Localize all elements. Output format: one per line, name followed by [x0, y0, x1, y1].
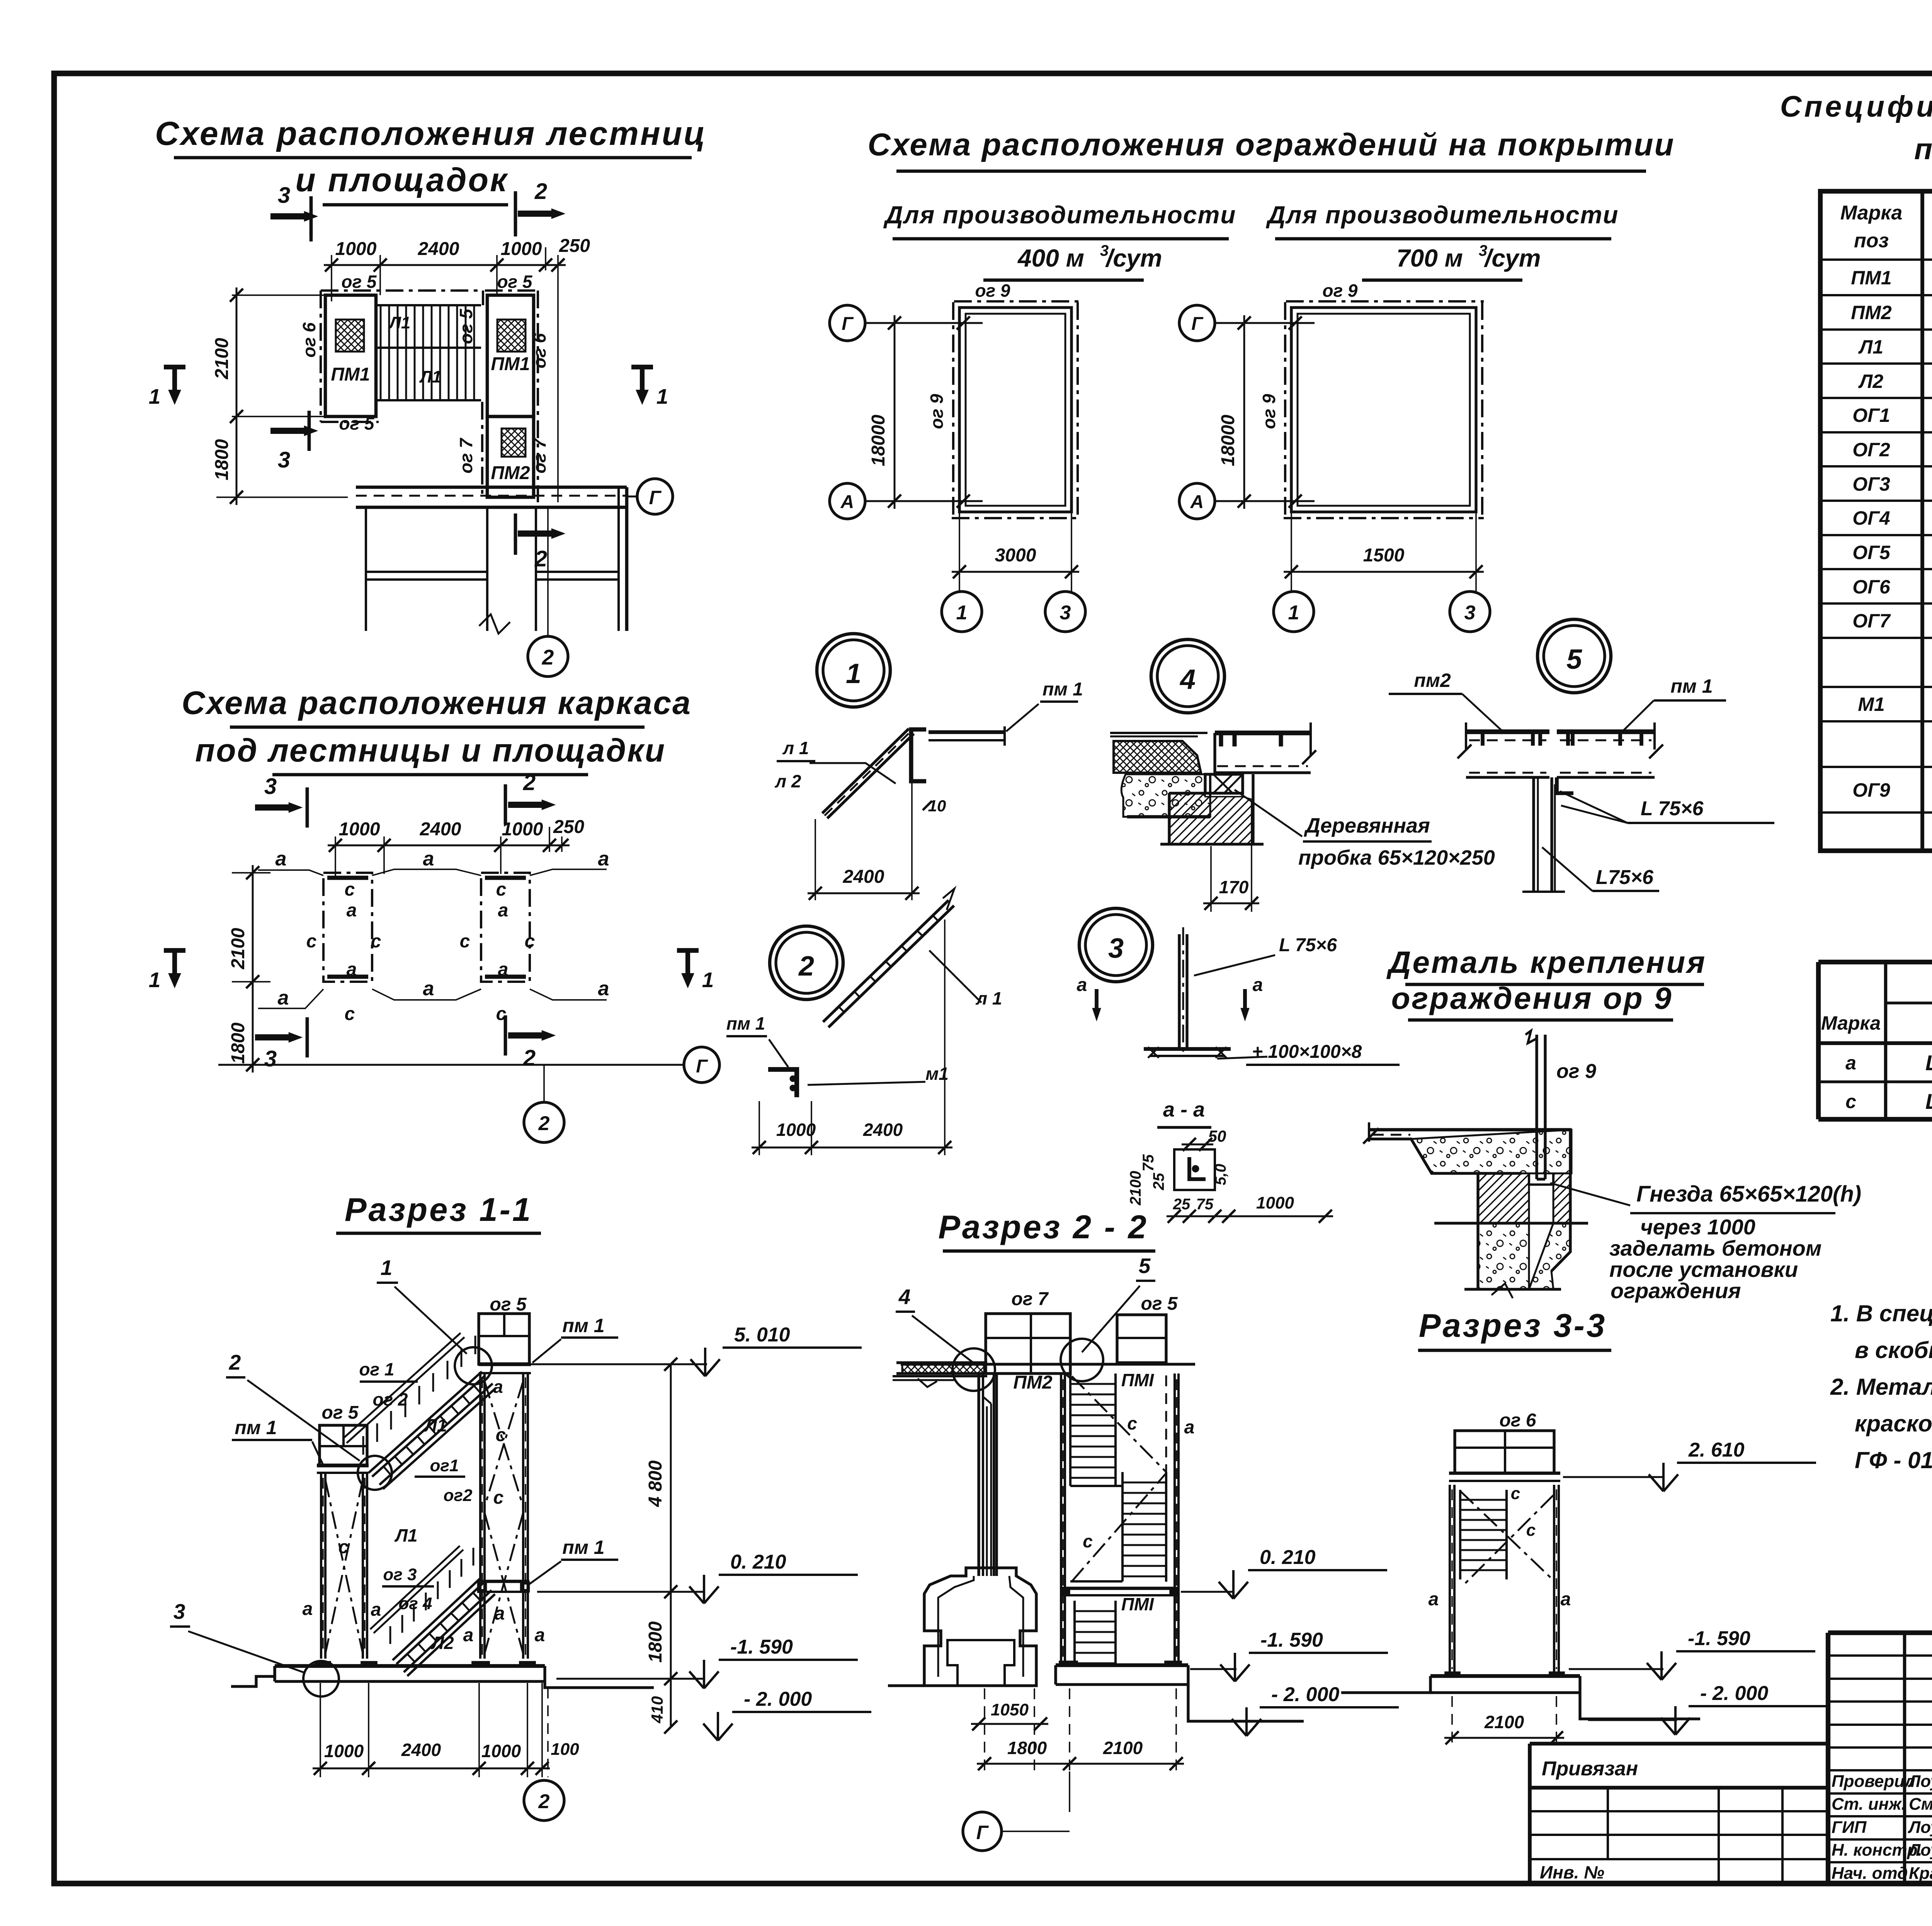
svg-text:ГФ - 0119 (ГОСТ 23343 -78): ГФ - 0119 (ГОСТ 23343 -78) или ГФ -021 (…	[1855, 1447, 1932, 1473]
svg-text:а: а	[347, 900, 357, 921]
svg-text:ОГ4: ОГ4	[1852, 507, 1890, 529]
svg-text:Для производительности: Для производительности	[883, 201, 1236, 229]
svg-text:Марка: Марка	[1821, 1012, 1881, 1034]
svg-text:с: с	[1526, 1521, 1536, 1540]
svg-text:ог 7: ог 7	[529, 437, 549, 473]
svg-text:3: 3	[264, 774, 277, 799]
svg-text:ОГ2: ОГ2	[1852, 439, 1890, 461]
svg-text:/сут: /сут	[1483, 244, 1541, 272]
svg-text:1050: 1050	[991, 1700, 1029, 1719]
svg-text:ог 5: ог 5	[1141, 1294, 1178, 1314]
svg-text:0. 210: 0. 210	[730, 1551, 786, 1573]
svg-text:2. Металлические констру: 2. Металлические конструкции окрасить ма…	[1830, 1374, 1932, 1400]
svg-text:ОГ7: ОГ7	[1852, 610, 1891, 632]
svg-text:- 2. 000: - 2. 000	[1271, 1683, 1339, 1706]
svg-text:ог 9: ог 9	[927, 394, 947, 429]
svg-text:ог 6: ог 6	[299, 322, 319, 357]
svg-text:л 1: л 1	[782, 738, 809, 758]
svg-text:3000: 3000	[995, 545, 1036, 566]
svg-text:4: 4	[898, 1285, 911, 1309]
svg-text:2: 2	[229, 1350, 241, 1374]
svg-text:2100: 2100	[212, 338, 232, 379]
svg-text:л 1: л 1	[976, 988, 1002, 1008]
svg-text:ог 5: ог 5	[341, 272, 377, 292]
svg-text:Привязан: Привязан	[1542, 1758, 1638, 1780]
svg-text:2400: 2400	[863, 1120, 903, 1140]
svg-text:А: А	[840, 492, 854, 512]
svg-text:2100: 2100	[1127, 1171, 1144, 1206]
svg-text:ограждения ор 9: ограждения ор 9	[1391, 981, 1673, 1015]
svg-text:с: с	[1127, 1413, 1137, 1433]
svg-text:Л1: Л1	[419, 367, 442, 386]
svg-text:Разрез 2 - 2: Разрез 2 - 2	[938, 1209, 1148, 1246]
svg-text:Лоуцкер: Лоуцкер	[1908, 1818, 1932, 1837]
svg-text:3: 3	[1464, 602, 1476, 624]
svg-text:Проверил: Проверил	[1832, 1772, 1915, 1791]
svg-text:а: а	[278, 987, 289, 1009]
svg-text:+ 100×100×8: + 100×100×8	[1252, 1042, 1362, 1062]
svg-text:ПМI: ПМI	[1121, 1370, 1154, 1390]
svg-text:ПМI: ПМI	[1121, 1594, 1154, 1614]
svg-text:а: а	[495, 1603, 505, 1624]
svg-text:-1. 590: -1. 590	[1688, 1627, 1750, 1650]
svg-text:1500: 1500	[1363, 545, 1405, 566]
svg-text:Схема расположения каркаса: Схема расположения каркаса	[182, 685, 692, 721]
svg-text:1000: 1000	[502, 819, 543, 840]
svg-text:1: 1	[149, 384, 161, 408]
svg-text:3: 3	[264, 1046, 277, 1071]
svg-text:пм 1: пм 1	[726, 1013, 765, 1034]
svg-text:Л1: Л1	[394, 1525, 417, 1545]
svg-text:а: а	[498, 900, 509, 921]
svg-text:5: 5	[1566, 644, 1582, 675]
svg-text:L: L	[1925, 1051, 1932, 1075]
svg-text:с: с	[496, 879, 507, 900]
svg-text:Деревянная: Деревянная	[1304, 814, 1430, 837]
svg-text:ог 9: ог 9	[1259, 394, 1279, 429]
svg-text:1: 1	[656, 384, 668, 408]
svg-text:2100: 2100	[1484, 1712, 1524, 1732]
svg-text:Г: Г	[976, 1822, 989, 1843]
svg-text:ГИП: ГИП	[1832, 1818, 1867, 1837]
svg-text:Красавин: Красавин	[1909, 1864, 1932, 1883]
svg-text:а: а	[303, 1599, 313, 1619]
svg-text:18000: 18000	[868, 415, 889, 466]
svg-text:ог 6: ог 6	[1500, 1410, 1536, 1431]
svg-text:пробка 65×120×250: пробка 65×120×250	[1298, 846, 1495, 869]
svg-text:Ст. инж.: Ст. инж.	[1832, 1795, 1906, 1814]
svg-text:ог 2: ог 2	[372, 1389, 408, 1409]
svg-text:и площадок: и площадок	[295, 161, 509, 199]
svg-text:2400: 2400	[401, 1740, 441, 1760]
svg-text:ог 9: ог 9	[1322, 280, 1357, 301]
svg-text:-1. 590: -1. 590	[1260, 1629, 1323, 1651]
svg-text:1000: 1000	[501, 239, 542, 259]
svg-text:1000: 1000	[335, 239, 377, 259]
svg-text:Схема расположения ограждени: Схема расположения ограждений на покрыти…	[867, 127, 1675, 162]
svg-text:с: с	[493, 1487, 504, 1508]
svg-text:0. 210: 0. 210	[1260, 1546, 1316, 1569]
svg-text:с: с	[1845, 1091, 1856, 1112]
svg-text:2: 2	[534, 179, 547, 204]
svg-text:ПМ1: ПМ1	[491, 354, 530, 374]
svg-text:1: 1	[1288, 602, 1299, 624]
svg-text:1800: 1800	[212, 439, 232, 480]
svg-text:25: 25	[1150, 1173, 1167, 1190]
svg-text:ог 5: ог 5	[497, 272, 532, 292]
svg-text:Л1: Л1	[423, 1415, 447, 1435]
svg-text:1000: 1000	[481, 1741, 521, 1761]
svg-text:с: с	[1511, 1484, 1520, 1503]
svg-text:с: с	[306, 931, 317, 952]
svg-text:Л2: Л2	[1858, 371, 1883, 392]
svg-text:Лоуцкер: Лоуцкер	[1908, 1772, 1932, 1791]
svg-text:2400: 2400	[420, 819, 461, 840]
svg-text:ог 5: ог 5	[456, 308, 476, 344]
svg-text:а: а	[423, 848, 434, 870]
svg-text:ог 7: ог 7	[1012, 1289, 1049, 1309]
svg-text:- 2. 000: - 2. 000	[1700, 1682, 1768, 1705]
svg-text:2400: 2400	[418, 239, 459, 259]
svg-text:Л2: Л2	[430, 1633, 454, 1653]
svg-text:18000: 18000	[1218, 415, 1238, 466]
svg-text:75: 75	[1196, 1196, 1214, 1213]
svg-text:2: 2	[523, 770, 536, 795]
svg-text:1: 1	[149, 968, 161, 992]
svg-text:3: 3	[278, 183, 290, 208]
svg-text:а: а	[498, 959, 509, 980]
svg-text:100: 100	[551, 1740, 579, 1759]
svg-text:под лестницы и площадки: под лестницы и площадки	[195, 732, 666, 768]
svg-text:с: с	[345, 879, 355, 900]
svg-text:Нач. отд: Нач. отд	[1832, 1864, 1908, 1883]
svg-text:Для производительности: Для производительности	[1266, 201, 1619, 229]
svg-text:1: 1	[702, 968, 714, 992]
svg-text:170: 170	[1219, 877, 1249, 897]
svg-text:L75×6: L75×6	[1596, 866, 1654, 889]
svg-text:2: 2	[542, 645, 554, 669]
svg-text:а: а	[1845, 1052, 1856, 1074]
svg-text:после установки: после установки	[1609, 1257, 1798, 1282]
svg-text:л 2: л 2	[775, 771, 801, 791]
svg-text:Деталь крепления: Деталь крепления	[1386, 945, 1707, 979]
svg-text:2100: 2100	[228, 928, 248, 969]
svg-text:1000: 1000	[339, 819, 380, 840]
svg-text:а: а	[423, 977, 434, 1000]
svg-text:Лоуцкер: Лоуцкер	[1908, 1841, 1932, 1860]
svg-text:Марка: Марка	[1840, 202, 1903, 224]
svg-text:ог 6: ог 6	[529, 333, 549, 368]
svg-text:а: а	[598, 977, 609, 1000]
svg-text:пм 1: пм 1	[1670, 675, 1713, 697]
svg-text:3: 3	[1060, 602, 1071, 624]
svg-text:5. 010: 5. 010	[734, 1324, 790, 1346]
svg-text:ОГ3: ОГ3	[1852, 473, 1890, 495]
svg-text:а: а	[598, 848, 609, 870]
svg-text:пм 1: пм 1	[235, 1417, 277, 1438]
svg-text:1800: 1800	[645, 1621, 666, 1663]
svg-text:3: 3	[278, 447, 290, 473]
svg-text:заделать бетоном: заделать бетоном	[1609, 1236, 1821, 1260]
svg-text:Г: Г	[842, 314, 854, 334]
svg-text:3: 3	[173, 1600, 185, 1623]
svg-text:ог 4: ог 4	[398, 1594, 432, 1613]
svg-text:а: а	[1429, 1589, 1439, 1610]
svg-text:ог 5: ог 5	[322, 1402, 359, 1423]
svg-text:Г: Г	[1191, 314, 1204, 334]
svg-text:ПМ1: ПМ1	[1851, 267, 1891, 289]
svg-text:1: 1	[846, 658, 861, 689]
svg-text:с: с	[345, 1004, 355, 1024]
svg-text:2: 2	[523, 1045, 536, 1071]
svg-text:Разрез 3-3: Разрез 3-3	[1419, 1307, 1607, 1344]
svg-text:L 75×6: L 75×6	[1279, 935, 1337, 955]
svg-text:а: а	[493, 1377, 503, 1397]
svg-text:ог 5: ог 5	[339, 413, 374, 433]
svg-text:1800: 1800	[228, 1022, 248, 1064]
svg-text:ОГ9: ОГ9	[1852, 779, 1890, 801]
svg-text:Г: Г	[696, 1056, 708, 1077]
svg-text:ог 7: ог 7	[456, 437, 476, 473]
svg-text:Инв. №: Инв. №	[1540, 1862, 1604, 1882]
svg-text:25: 25	[1173, 1196, 1190, 1213]
svg-text:/сут: /сут	[1105, 244, 1162, 272]
svg-text:Смирнова: Смирнова	[1909, 1795, 1932, 1814]
svg-text:площадок и ограждений: площадок и ограждений	[1914, 133, 1932, 166]
svg-text:краской ГОСТ 8292- 85 за: краской ГОСТ 8292- 85 за 2 раза по грунт…	[1855, 1411, 1932, 1436]
svg-text:-1. 590: -1. 590	[730, 1636, 793, 1658]
svg-text:ог 5: ог 5	[490, 1294, 527, 1315]
svg-text:а: а	[1561, 1589, 1571, 1610]
svg-text:3: 3	[1108, 933, 1124, 964]
svg-text:ог 1: ог 1	[359, 1359, 394, 1379]
svg-text:Схема расположения лестниц: Схема расположения лестниц	[155, 115, 707, 152]
svg-text:а: а	[535, 1625, 545, 1646]
svg-text:5,0: 5,0	[1212, 1164, 1229, 1185]
svg-text:с: с	[496, 1425, 506, 1445]
svg-text:250: 250	[559, 236, 590, 256]
svg-text:1000: 1000	[1256, 1193, 1294, 1212]
svg-text:с: с	[460, 931, 470, 952]
svg-text:410: 410	[648, 1696, 666, 1724]
svg-text:1000: 1000	[324, 1741, 364, 1761]
svg-text:ОГ6: ОГ6	[1852, 576, 1891, 598]
svg-text:ПМ1: ПМ1	[331, 364, 370, 385]
svg-text:Л1: Л1	[1858, 336, 1883, 358]
svg-text:пм 1: пм 1	[562, 1537, 604, 1558]
svg-text:с: с	[371, 931, 381, 952]
svg-text:с: с	[1083, 1531, 1093, 1551]
svg-text:700 м: 700 м	[1396, 244, 1463, 272]
svg-text:поз: поз	[1854, 229, 1889, 252]
svg-text:L 75×6: L 75×6	[1641, 797, 1704, 820]
svg-text:ог1: ог1	[430, 1456, 459, 1475]
svg-text:Спецификация к схемам расп: Спецификация к схемам расположения лестн…	[1780, 90, 1932, 123]
svg-text:ПМ2: ПМ2	[491, 463, 530, 483]
svg-text:75: 75	[1140, 1154, 1157, 1171]
svg-text:400 м: 400 м	[1017, 244, 1084, 272]
svg-text:ог 3: ог 3	[383, 1565, 417, 1584]
svg-text:5: 5	[1139, 1254, 1151, 1278]
svg-text:а: а	[371, 1600, 381, 1620]
svg-text:1. В спецификации колич: 1. В спецификации количество ограждений	[1830, 1300, 1932, 1326]
svg-text:- 2. 000: - 2. 000	[744, 1688, 812, 1710]
svg-text:с: с	[338, 1537, 349, 1557]
svg-text:4 800: 4 800	[645, 1460, 666, 1507]
svg-text:2: 2	[798, 951, 814, 982]
svg-text:2: 2	[538, 1112, 550, 1135]
svg-text:в скобках дано для прои: в скобках дано для производительности 70…	[1855, 1337, 1932, 1363]
svg-text:а: а	[276, 848, 287, 870]
svg-text:пм 1: пм 1	[562, 1315, 604, 1336]
svg-text:ПМ2: ПМ2	[1013, 1372, 1053, 1393]
svg-text:250: 250	[553, 817, 584, 837]
svg-text:а: а	[1077, 975, 1087, 995]
svg-text:1: 1	[381, 1256, 393, 1280]
svg-text:ог 9: ог 9	[975, 280, 1010, 301]
svg-text:Л1: Л1	[388, 313, 411, 332]
svg-text:ОГ1: ОГ1	[1852, 405, 1890, 426]
svg-text:А: А	[1190, 492, 1204, 512]
svg-text:М1: М1	[1858, 694, 1884, 715]
svg-text:10: 10	[928, 797, 946, 815]
svg-text:а: а	[347, 959, 357, 980]
svg-text:1800: 1800	[1007, 1738, 1047, 1758]
svg-text:Г: Г	[649, 487, 662, 508]
svg-text:Гнезда 65×65×120(h): Гнезда 65×65×120(h)	[1636, 1181, 1861, 1207]
svg-text:с: с	[525, 931, 535, 952]
svg-text:ОГ5: ОГ5	[1852, 542, 1891, 563]
svg-text:Разрез 1-1: Разрез 1-1	[345, 1192, 532, 1228]
svg-text:а: а	[1253, 975, 1263, 995]
svg-text:ог2: ог2	[444, 1486, 473, 1505]
svg-text:а: а	[1184, 1417, 1195, 1438]
svg-text:пм 1: пм 1	[1043, 679, 1083, 700]
svg-text:2400: 2400	[843, 867, 884, 887]
svg-text:L: L	[1925, 1089, 1932, 1113]
svg-text:ог 9: ог 9	[1556, 1060, 1596, 1083]
svg-text:пм2: пм2	[1414, 670, 1451, 691]
svg-text:ПМ2: ПМ2	[1851, 302, 1892, 323]
svg-text:а - а: а - а	[1163, 1098, 1205, 1121]
svg-text:50: 50	[1208, 1127, 1226, 1145]
svg-text:через 1000: через 1000	[1640, 1215, 1755, 1239]
svg-text:1: 1	[956, 602, 968, 624]
svg-text:2: 2	[538, 1790, 550, 1813]
svg-text:1000: 1000	[776, 1120, 816, 1140]
svg-text:ограждения: ограждения	[1611, 1278, 1741, 1303]
svg-text:4: 4	[1179, 664, 1196, 695]
svg-text:2100: 2100	[1103, 1738, 1143, 1758]
svg-text:2. 610: 2. 610	[1688, 1439, 1745, 1461]
svg-text:а: а	[463, 1625, 474, 1646]
